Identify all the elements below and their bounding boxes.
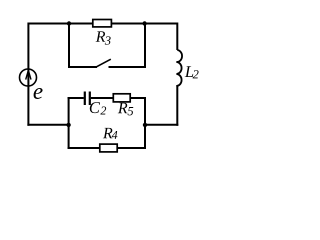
node dot top-left junction: [67, 21, 71, 25]
resistor R4: [100, 128, 118, 152]
capacitor C2: [85, 92, 106, 115]
wire switch branch right vertical: [144, 24, 146, 69]
wire bottom-left horizontal: [27, 124, 68, 126]
wire left vertical: [27, 23, 29, 126]
wire R4 to right vertical: [117, 147, 146, 149]
wire switch branch right horizontal: [109, 66, 146, 68]
wire C2 to R5: [91, 97, 114, 99]
wire R4 branch left: [68, 147, 100, 149]
wire R5 to right vertical: [130, 97, 146, 99]
wire right vertical lower: [176, 85, 178, 126]
wire parallel-section right vertical: [144, 97, 146, 149]
inductor L2: [176, 50, 198, 86]
wire mid-right horizontal: [145, 124, 178, 126]
wire right vertical upper: [176, 23, 178, 51]
node dot right mid junction: [143, 123, 147, 127]
switch S lever: [97, 59, 111, 67]
resistor R3: [93, 20, 112, 45]
node dot left mid junction: [66, 123, 70, 127]
resistor R5: [113, 94, 133, 116]
wire C2 branch left: [68, 97, 84, 99]
wire parallel-section left vertical: [68, 97, 70, 149]
wire switch branch left vertical: [68, 24, 70, 69]
wire switch branch left horizontal: [68, 66, 97, 68]
wire top: [28, 23, 177, 25]
source e: [20, 69, 43, 99]
node dot top-right junction: [142, 21, 146, 25]
